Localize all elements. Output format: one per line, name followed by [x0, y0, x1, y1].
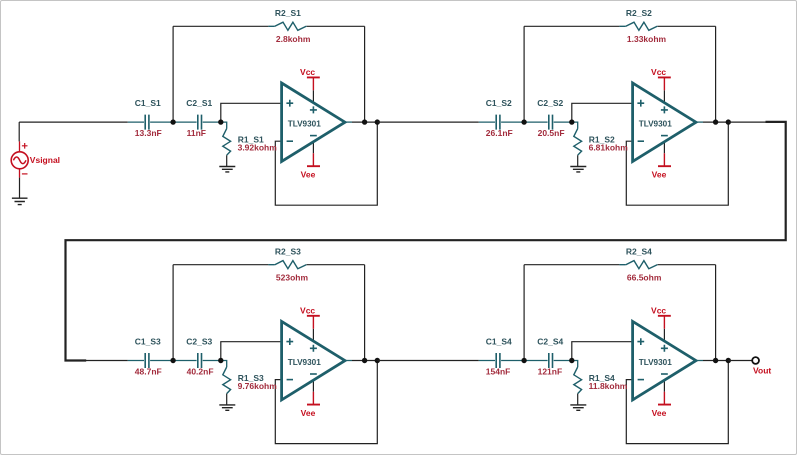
svg-text:Vee: Vee — [301, 169, 316, 179]
svg-text:1.33kohm: 1.33kohm — [627, 34, 667, 44]
svg-text:R2_S1: R2_S1 — [275, 8, 301, 18]
svg-text:523ohm: 523ohm — [276, 273, 309, 283]
svg-text:C2_S3: C2_S3 — [186, 337, 212, 347]
svg-text:C2_S2: C2_S2 — [537, 98, 563, 108]
svg-text:C2_S1: C2_S1 — [186, 98, 212, 108]
svg-text:Vcc: Vcc — [300, 67, 315, 77]
svg-text:C1_S3: C1_S3 — [135, 337, 161, 347]
svg-text:20.5nF: 20.5nF — [538, 128, 565, 138]
svg-text:6.81kohm: 6.81kohm — [589, 143, 629, 153]
svg-text:48.7nF: 48.7nF — [135, 367, 162, 377]
svg-text:Vout: Vout — [753, 365, 771, 375]
svg-text:40.2nF: 40.2nF — [187, 367, 214, 377]
svg-text:11nF: 11nF — [187, 128, 206, 138]
svg-text:C1_S1: C1_S1 — [135, 98, 161, 108]
svg-text:11.8kohm: 11.8kohm — [589, 381, 628, 391]
svg-text:154nF: 154nF — [486, 367, 511, 377]
svg-text:3.92kohm: 3.92kohm — [238, 143, 278, 153]
svg-text:26.1nF: 26.1nF — [486, 128, 513, 138]
svg-text:R2_S3: R2_S3 — [275, 247, 301, 257]
svg-text:9.76kohm: 9.76kohm — [238, 381, 278, 391]
svg-text:R2_S4: R2_S4 — [626, 247, 652, 257]
svg-text:R2_S2: R2_S2 — [626, 8, 652, 18]
svg-text:66.5ohm: 66.5ohm — [627, 273, 662, 283]
svg-text:C1_S2: C1_S2 — [486, 98, 512, 108]
svg-text:2.8kohm: 2.8kohm — [276, 34, 311, 44]
svg-text:C1_S4: C1_S4 — [486, 337, 512, 347]
svg-text:121nF: 121nF — [538, 367, 563, 377]
svg-text:TLV9301: TLV9301 — [288, 119, 322, 128]
svg-text:13.3nF: 13.3nF — [135, 128, 162, 138]
svg-text:Vsignal: Vsignal — [30, 155, 60, 165]
svg-text:C2_S4: C2_S4 — [537, 337, 563, 347]
